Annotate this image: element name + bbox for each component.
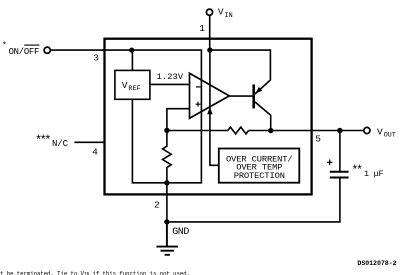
wire ON/OFF loop to VREF bottom [50,50,201,183]
label 1uF [351,165,383,180]
plus sign [196,102,201,107]
node FB junction dot [164,128,169,133]
op-amp U1 [190,73,230,118]
wire VIN rail to transistor emitter [210,50,271,80]
wire N/C to pin 4 [74,141,103,143]
ground symbol [156,222,178,255]
node pin3/VREF junction dot [129,48,134,53]
wire R1 to VOUT rail [249,130,364,132]
transistor Q1 emitter arrow [255,87,262,94]
resistor R2 vertical [163,131,172,183]
block protection U3 [219,149,299,183]
label protection text [226,154,292,180]
capacitor plus sign [327,160,333,166]
svg-text:***: *** [35,134,50,148]
wire capacitor to GND node [170,178,340,222]
svg-text:DS012078-2: DS012078-2 [357,260,396,267]
node collector junction dot [268,128,273,133]
transistor Q1 collector [255,102,271,131]
svg-text:t be terminated. Tie to VIN if: t be terminated. Tie to VIN if this func… [0,270,190,275]
label VREF [122,80,141,93]
wire VREF out to op-amp minus input [150,83,189,85]
svg-text:4: 4 [92,146,98,157]
wire FB node to resistor R1 [167,130,228,132]
label ON/OFF with overline [2,41,39,57]
svg-text:ON/OFF: ON/OFF [9,47,39,57]
block VREF U2 [115,70,150,99]
svg-text:OUT: OUT [384,132,396,140]
arrow into op-amp [207,107,212,114]
minus sign [196,86,201,88]
wire enable line from node A through op-amp to protection block [210,50,218,165]
transistor Q1 emitter [255,80,271,94]
svg-text:1 μF: 1 μF [364,169,383,179]
svg-text:IN: IN [225,12,233,20]
svg-text:**: ** [351,165,362,178]
wire pin 2 to GND node [166,183,168,222]
resistor R1 horizontal [228,127,249,134]
svg-text:N/C: N/C [52,139,69,149]
svg-text:1.23V: 1.23V [157,72,184,82]
terminal VIN [206,9,212,15]
svg-text:V: V [122,80,128,91]
node A junction dot [207,47,212,52]
svg-text:5: 5 [315,134,321,145]
svg-text:*: * [2,41,7,50]
capacitor C1 [330,172,349,178]
svg-text:1: 1 [199,23,205,34]
label VIN [218,6,233,19]
node VOUT junction dot [337,128,342,133]
IC outline box [105,39,312,195]
terminal VOUT [364,127,370,133]
svg-text:3: 3 [93,53,99,64]
label VOUT [377,126,396,139]
transistor Q1 base bar [252,84,255,108]
svg-text:2: 2 [154,200,160,211]
svg-text:V: V [377,126,383,137]
node GND junction dot [164,219,169,224]
wire op-amp output to base [229,95,252,97]
svg-text:PROTECTION: PROTECTION [234,171,285,181]
label N/C [35,134,69,149]
svg-text:V: V [218,6,224,17]
wire VIN to junction A [209,15,211,48]
svg-text:REF: REF [128,85,140,93]
wire VOUT node to capacitor [339,131,341,172]
wire op-amp plus input to node FB [167,109,190,129]
terminal ON/OFF [44,47,50,53]
svg-text:GND: GND [172,227,189,238]
wire VREF top [131,50,133,70]
node divider-bottom junction dot [164,180,169,185]
